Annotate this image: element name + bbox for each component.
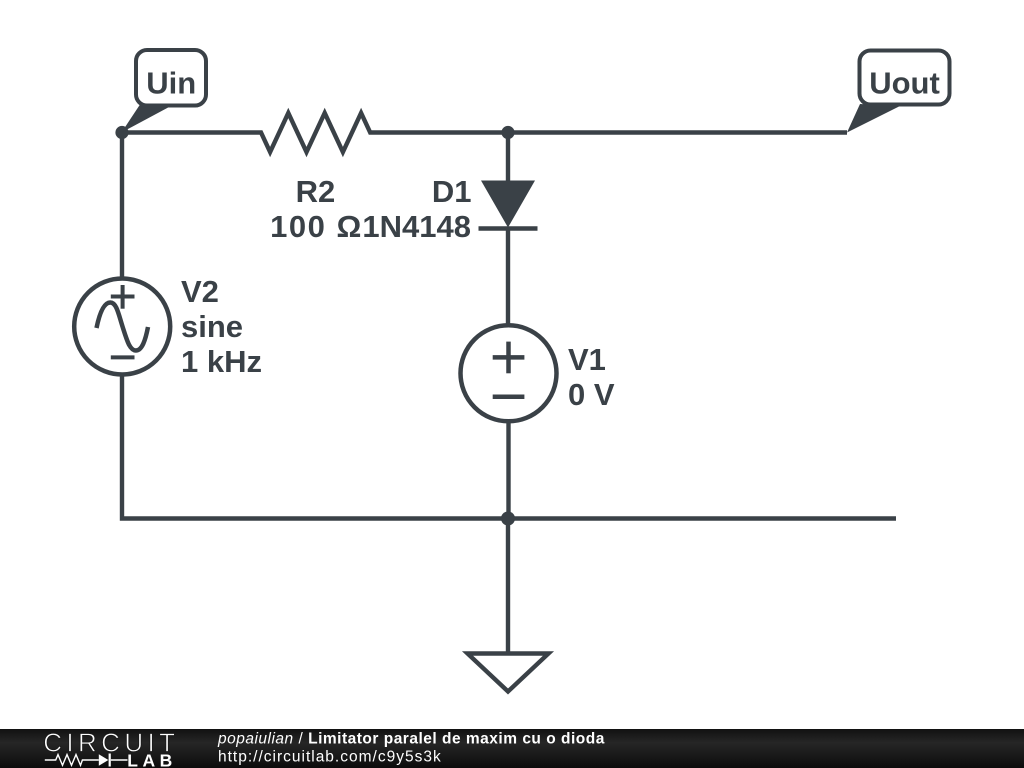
svg-text:V1: V1 xyxy=(568,342,606,377)
svg-text:http://circuitlab.com/c9y5s3k: http://circuitlab.com/c9y5s3k xyxy=(218,749,442,766)
svg-text:sine: sine xyxy=(181,309,243,344)
svg-text:0 V: 0 V xyxy=(568,377,615,412)
svg-text:D1: D1 xyxy=(432,174,472,209)
svg-text:popaiulian / Limitator paralel: popaiulian / Limitator paralel de maxim … xyxy=(217,731,605,748)
svg-text:1 kHz: 1 kHz xyxy=(181,344,262,379)
svg-text:R2: R2 xyxy=(296,174,336,209)
svg-text:100 Ω: 100 Ω xyxy=(270,209,363,244)
svg-text:1N4148: 1N4148 xyxy=(362,209,471,244)
svg-text:Uout: Uout xyxy=(869,66,940,101)
svg-text:V2: V2 xyxy=(181,274,219,309)
svg-text:Uin: Uin xyxy=(146,66,196,101)
svg-text:LAB: LAB xyxy=(127,750,176,768)
